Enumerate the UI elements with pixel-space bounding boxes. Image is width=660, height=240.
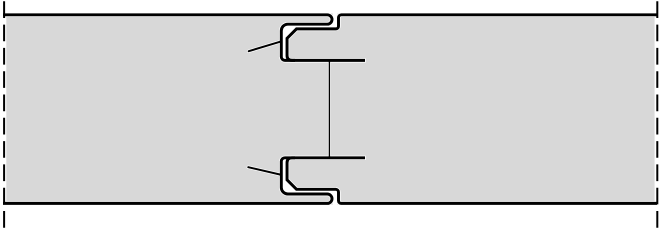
- left panel top facing profile: [3, 15, 365, 61]
- white wedge in channel corner (top): [283, 26, 298, 39]
- white joint air gap (bottom): [283, 162, 335, 208]
- white joint air gap (top): [284, 11, 335, 57]
- leader line (bottom): [248, 167, 281, 175]
- leader line (top): [249, 41, 282, 51]
- left panel bottom facing profile: [3, 158, 365, 204]
- right break line (dashed): [656, 1, 658, 229]
- joint centerline: [328, 60, 330, 157]
- right panel bottom facing profile: [287, 158, 657, 204]
- left break line (dashed): [3, 1, 5, 229]
- white casing of joint centerline: [328, 60, 331, 157]
- white casings (top joint): [3, 15, 657, 61]
- white casings (bottom joint): [3, 158, 657, 204]
- white casing of bottom leader: [248, 167, 281, 175]
- panel insulation core (gray band): [6, 13, 654, 204]
- right panel top facing profile: [287, 15, 657, 61]
